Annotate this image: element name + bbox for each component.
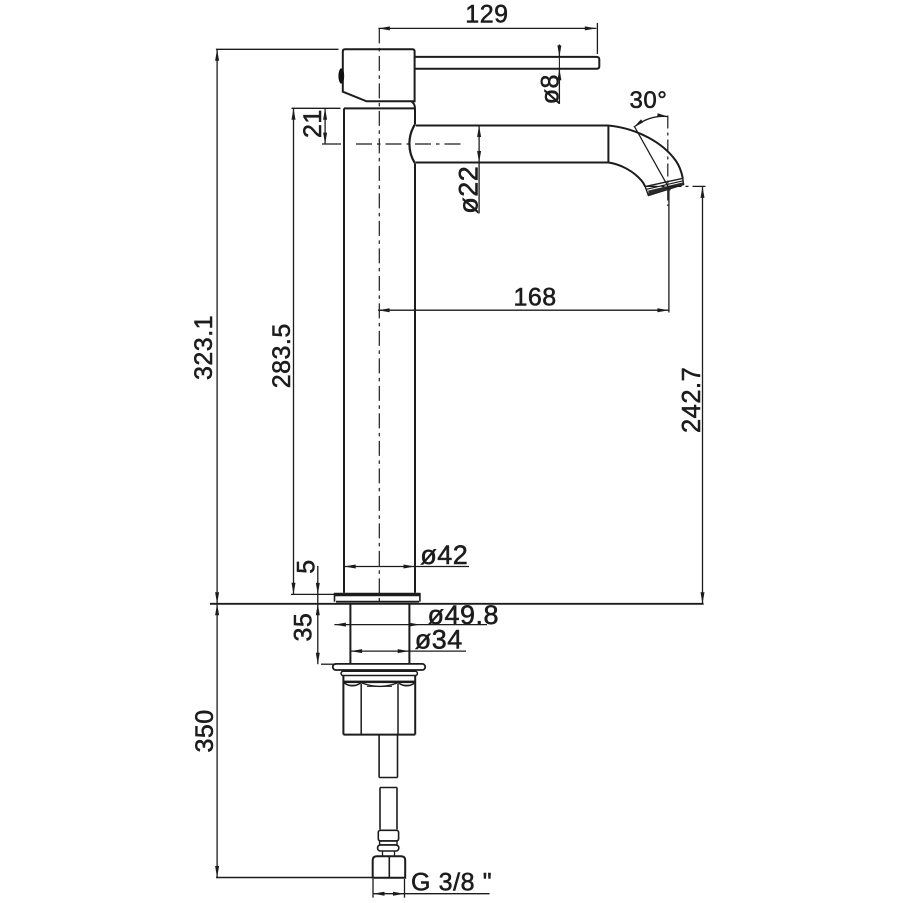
svg-text:283.5: 283.5 xyxy=(268,323,296,388)
svg-text:G 3/8 ": G 3/8 " xyxy=(411,868,492,896)
svg-text:323.1: 323.1 xyxy=(190,315,218,380)
svg-text:ø34: ø34 xyxy=(415,625,463,655)
svg-text:168: 168 xyxy=(514,283,557,311)
svg-text:129: 129 xyxy=(465,0,508,28)
svg-text:5: 5 xyxy=(293,559,321,573)
svg-text:21: 21 xyxy=(299,109,327,138)
svg-text:35: 35 xyxy=(290,613,318,642)
svg-text:350: 350 xyxy=(191,709,219,752)
svg-text:ø8: ø8 xyxy=(536,74,564,104)
svg-text:ø42: ø42 xyxy=(420,540,468,570)
svg-text:242.7: 242.7 xyxy=(678,367,706,433)
svg-text:30°: 30° xyxy=(630,87,668,114)
svg-text:ø22: ø22 xyxy=(453,166,483,214)
